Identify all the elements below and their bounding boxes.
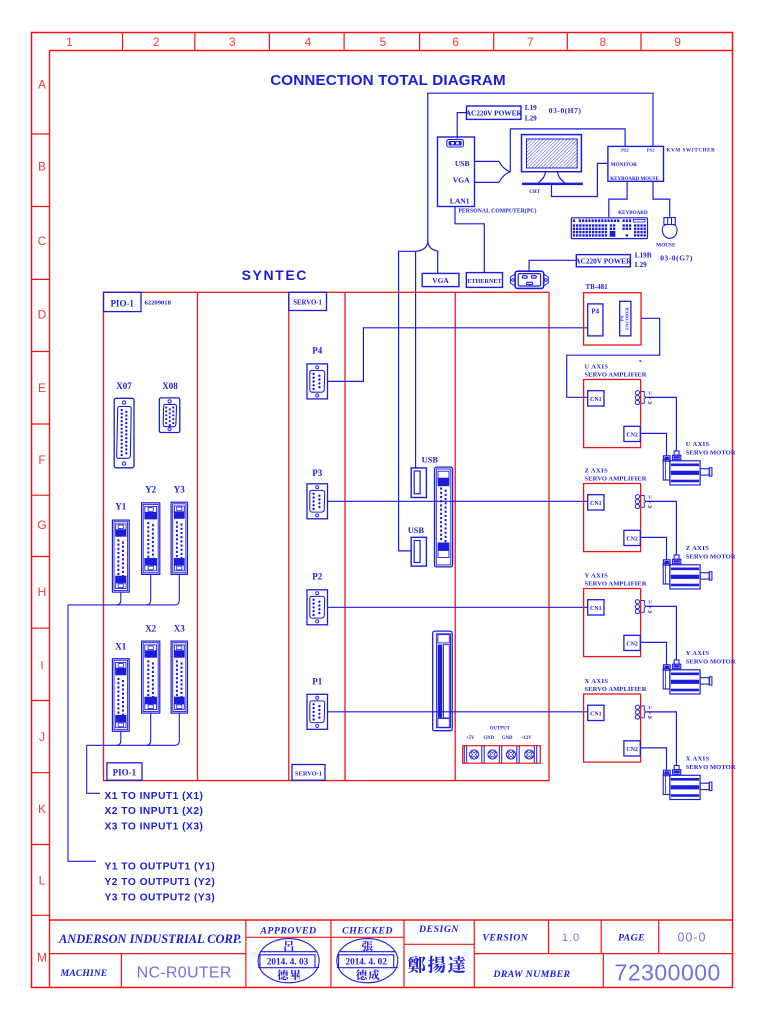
wire CN2 to Y motor: [640, 642, 666, 664]
svg-text:CN1: CN1: [590, 712, 602, 718]
svg-text:APPROVED: APPROVED: [259, 925, 316, 936]
keyboard drawing: [571, 218, 647, 239]
border frame inner lines: [50, 50, 733, 52]
svg-text:P1: P1: [312, 677, 322, 687]
svg-text:Z AXIS: Z AXIS: [585, 468, 609, 475]
svg-text:I: I: [40, 658, 43, 672]
svg-text:D: D: [38, 308, 47, 322]
svg-text:GND: GND: [502, 736, 513, 741]
UVW terminals U: [635, 391, 639, 395]
Y axis servo amplifier box: [584, 589, 641, 657]
svg-text:CN1: CN1: [590, 397, 602, 403]
svg-text:X2: X2: [145, 624, 156, 634]
svg-text:Y1 TO OUTPUT1 (Y1): Y1 TO OUTPUT1 (Y1): [105, 861, 216, 872]
svg-text:NC-R0UTER: NC-R0UTER: [137, 964, 232, 981]
svg-text:U AXIS: U AXIS: [686, 441, 710, 448]
svg-text:X3 TO INPUT1 (X3): X3 TO INPUT1 (X3): [105, 822, 204, 833]
wire VGA-box riser to KVM PS2 right: [428, 93, 653, 240]
wire Y bus to output labels: [68, 605, 96, 861]
wire CN2 to Z motor: [640, 537, 666, 559]
svg-text:PS2: PS2: [647, 148, 655, 153]
svg-text:72300000: 72300000: [615, 959, 721, 985]
svg-text:SERVO AMPLIFIER: SERVO AMPLIFIER: [585, 580, 647, 587]
X axis servo amplifier box: [584, 694, 641, 762]
svg-text:SERVO AMPLIFIER: SERVO AMPLIFIER: [585, 475, 647, 482]
UVW terminals Y: [635, 600, 639, 604]
svg-text:DRAW NUMBER: DRAW NUMBER: [492, 969, 570, 980]
svg-text:X3: X3: [174, 624, 185, 634]
wire Y-split to VGA and USB risers: [416, 240, 428, 251]
svg-text:CN2: CN2: [626, 747, 638, 753]
wire P4 to TB-481: [328, 328, 588, 382]
connector P2: [307, 590, 328, 625]
X axis servo motor: [663, 770, 670, 775]
wire P3 to Z axis CN1: [328, 500, 588, 502]
connector X3: [171, 641, 187, 713]
personal computer box: [438, 137, 475, 207]
SERVO-1 top label box: [289, 292, 327, 310]
wire X bus to input labels: [87, 745, 100, 793]
svg-text:CHECKED: CHECKED: [342, 925, 393, 936]
connector USB 1: [411, 468, 426, 498]
svg-text:W: W: [648, 504, 653, 509]
svg-text:7: 7: [527, 35, 534, 49]
svg-text:X1: X1: [115, 642, 126, 652]
svg-text:SERVO-1: SERVO-1: [293, 299, 322, 306]
wire UVW to Z motor: [646, 501, 676, 555]
U axis servo amplifier box: [584, 380, 641, 448]
wire riser to VGA box: [437, 251, 439, 273]
svg-text:USB: USB: [455, 159, 470, 168]
svg-text:KEYBOARD: KEYBOARD: [618, 210, 648, 216]
svg-text:SERVO-1: SERVO-1: [295, 770, 322, 777]
wire UVW to X motor: [646, 712, 676, 766]
connector CN2 Z: [624, 530, 640, 545]
svg-text:+5V: +5V: [466, 736, 475, 741]
svg-text:3: 3: [229, 35, 236, 49]
svg-text:Y AXIS: Y AXIS: [686, 650, 710, 657]
svg-text:2014. 4. 02: 2014. 4. 02: [346, 957, 388, 967]
svg-text:KEYBOARD MOUSE: KEYBOARD MOUSE: [610, 177, 659, 182]
designer name: [408, 956, 426, 973]
SERVO-1 bottom label box: [292, 765, 325, 781]
wire AC power 2 to socket: [529, 260, 576, 271]
wire Y-connectors bus: [68, 604, 175, 606]
svg-text:AC220V POWER: AC220V POWER: [575, 256, 632, 265]
svg-text:X07: X07: [116, 381, 132, 391]
wire KVM to keyboard: [609, 181, 627, 217]
svg-text:CRT: CRT: [529, 189, 540, 195]
AC220V POWER box 1: [467, 106, 522, 119]
connector CN1 Y: [588, 600, 604, 615]
wire P1 to X axis CN1: [328, 711, 588, 713]
svg-text:PIO-1: PIO-1: [110, 298, 134, 308]
connector CN2 X: [624, 741, 640, 756]
svg-text:P2: P2: [312, 572, 322, 582]
SYNTEC red dividers: [197, 292, 199, 780]
frame row dividers: [32, 133, 50, 135]
wire VGA from PC: [475, 181, 500, 183]
UVW terminals X: [635, 705, 639, 709]
svg-text:GND: GND: [483, 736, 494, 741]
svg-text:6: 6: [452, 35, 459, 49]
Y axis servo motor: [663, 665, 670, 670]
connector Y2: [142, 503, 160, 575]
svg-text:P3: P3: [312, 468, 322, 478]
svg-text:W: W: [648, 715, 653, 720]
svg-text:J: J: [39, 730, 45, 744]
svg-text:OUTPUT: OUTPUT: [490, 726, 511, 731]
power socket icon: [511, 274, 516, 286]
connector P1: [307, 694, 328, 729]
connector CN1 U: [588, 391, 604, 406]
svg-text:ETHERNET: ETHERNET: [467, 278, 502, 285]
svg-text:SERVO MOTOR: SERVO MOTOR: [686, 553, 736, 560]
wire TB-481 to U axis CN1: [567, 318, 660, 397]
connector X07: [114, 398, 134, 468]
svg-text:MACHINE: MACHINE: [60, 968, 108, 979]
svg-text:PS2: PS2: [621, 148, 629, 153]
svg-text:8: 8: [600, 35, 607, 49]
svg-text:L29: L29: [635, 261, 647, 269]
red dot mark: [639, 360, 641, 362]
approved stamp: [258, 939, 319, 983]
ETHERNET box: [466, 273, 502, 288]
svg-text:CN1: CN1: [590, 606, 602, 612]
svg-text:Y2 TO OUTPUT1 (Y2): Y2 TO OUTPUT1 (Y2): [105, 877, 216, 888]
frame column dividers: [122, 33, 124, 51]
svg-text:F: F: [38, 453, 45, 467]
svg-text:1: 1: [66, 35, 73, 49]
PC power inlet icon: [447, 140, 464, 148]
connector Y3: [171, 502, 187, 574]
U axis servo motor: [663, 456, 670, 461]
svg-text:G: G: [37, 518, 46, 532]
svg-text:9: 9: [674, 35, 681, 49]
svg-text:SERVO MOTOR: SERVO MOTOR: [686, 764, 736, 771]
svg-text:5: 5: [380, 35, 387, 49]
svg-text:K: K: [38, 802, 46, 816]
PIO-1 top label box: [104, 292, 142, 311]
PIO-1 bottom label box: [107, 763, 142, 780]
svg-text:MONITOR: MONITOR: [611, 162, 638, 168]
svg-text:Y3 TO OUTPUT2 (Y3): Y3 TO OUTPUT2 (Y3): [105, 892, 216, 903]
svg-text:B: B: [38, 159, 46, 173]
svg-text:LAN1: LAN1: [450, 196, 470, 205]
title block outline: [50, 919, 733, 921]
svg-text:00-0: 00-0: [677, 930, 706, 944]
svg-text:W: W: [648, 400, 653, 405]
svg-text:X2 TO INPUT1 (X2): X2 TO INPUT1 (X2): [105, 806, 204, 817]
svg-text:4: 4: [305, 35, 312, 49]
svg-text:C: C: [38, 234, 47, 248]
connector CN1 X: [588, 705, 604, 720]
svg-text:L19B: L19B: [635, 251, 652, 259]
wire bundle to KVM PS2 left: [510, 129, 625, 172]
svg-text:Z AXIS: Z AXIS: [686, 545, 710, 552]
svg-text:CN2: CN2: [626, 537, 638, 543]
svg-text:VERSION: VERSION: [482, 932, 528, 943]
svg-text:03-0(G7): 03-0(G7): [660, 253, 693, 262]
connector X08: [159, 398, 179, 433]
svg-text:AC220V POWER: AC220V POWER: [466, 108, 523, 117]
svg-text:SYNTEC: SYNTEC: [242, 267, 308, 283]
svg-text:CN2: CN2: [626, 433, 638, 439]
svg-text:X08: X08: [162, 381, 178, 391]
connector X2: [142, 641, 160, 713]
wire LAN1 to ETHERNET: [455, 207, 484, 273]
svg-text:VGA: VGA: [432, 276, 449, 285]
wire X-connectors bus: [87, 744, 175, 746]
svg-text:MOUSE: MOUSE: [656, 242, 676, 248]
svg-text:+12V: +12V: [521, 736, 533, 741]
svg-text:H: H: [38, 585, 47, 599]
svg-text:L29: L29: [525, 115, 537, 123]
svg-text:M: M: [37, 950, 47, 964]
svg-text:CN1: CN1: [590, 501, 602, 507]
svg-text:Y1: Y1: [115, 502, 126, 512]
svg-text:SERVO AMPLIFIER: SERVO AMPLIFIER: [585, 686, 647, 693]
svg-text:P4: P4: [591, 307, 599, 315]
svg-text:CONNECTION TOTAL DIAGRAM: CONNECTION TOTAL DIAGRAM: [270, 72, 506, 89]
connector CN2 U: [624, 426, 640, 441]
connector P3: [307, 484, 328, 519]
connector Y1: [112, 520, 129, 592]
wire CN2 to X motor: [640, 748, 666, 770]
wire AC power 1 to PC inlet: [457, 113, 466, 139]
Z axis servo amplifier box: [584, 484, 641, 552]
svg-text:USB: USB: [408, 526, 425, 535]
svg-text:X AXIS: X AXIS: [686, 755, 710, 762]
cable bundle arcs: [499, 161, 510, 171]
svg-text:USB: USB: [422, 456, 439, 465]
connector USB 2: [411, 537, 426, 566]
svg-text:W: W: [648, 609, 653, 614]
SYNTEC main red box: [104, 292, 550, 780]
svg-text:Y3: Y3: [174, 485, 185, 495]
svg-text:2014. 4. 03: 2014. 4. 03: [267, 957, 309, 967]
svg-text:03-0(H7): 03-0(H7): [549, 106, 582, 115]
svg-text:DESIGN: DESIGN: [418, 924, 459, 935]
wire monitor to KVM: [552, 163, 608, 196]
svg-text:PIO-1: PIO-1: [113, 767, 137, 777]
svg-text:L: L: [39, 874, 46, 888]
connector X1: [112, 659, 129, 732]
svg-text:X1 TO INPUT1 (X1): X1 TO INPUT1 (X1): [105, 791, 204, 802]
Z axis servo motor: [663, 560, 670, 565]
TB-481 P4 box: [588, 304, 603, 336]
TB-481 box: [584, 293, 641, 345]
connector IDC long 1: [435, 467, 453, 567]
svg-text:2: 2: [153, 35, 160, 49]
svg-text:Y AXIS: Y AXIS: [585, 573, 609, 580]
AC220V POWER box 2: [576, 255, 630, 267]
monitor stand: [539, 172, 546, 183]
wire P2 to Y axis CN1: [328, 606, 588, 608]
svg-text:62209018: 62209018: [145, 299, 172, 306]
connector CN2 Y: [624, 635, 640, 650]
svg-text:Y2: Y2: [145, 485, 156, 495]
svg-text:PAGE: PAGE: [618, 932, 645, 943]
svg-text:VGA: VGA: [453, 175, 470, 184]
svg-text:SERVO MOTOR: SERVO MOTOR: [686, 449, 736, 456]
svg-text:SERVO MOTOR: SERVO MOTOR: [686, 658, 736, 665]
mouse drawing: [664, 218, 675, 225]
wire riser to USB1: [415, 251, 417, 468]
connector CN1 Z: [588, 495, 604, 510]
TB-481 P4 ENCODER box: [620, 301, 631, 336]
svg-text:U AXIS: U AXIS: [585, 364, 609, 371]
wire KVM to mouse: [653, 181, 670, 216]
connector IDC long 2: [433, 631, 453, 731]
svg-text:1.0: 1.0: [562, 932, 580, 944]
svg-text:L19: L19: [525, 104, 537, 112]
wire UVW to Y motor: [646, 606, 676, 660]
svg-text:TB-481: TB-481: [586, 283, 609, 291]
checked stamp: [337, 939, 398, 983]
monitor CRT: [522, 135, 582, 172]
svg-text:SERVO AMPLIFIER: SERVO AMPLIFIER: [585, 371, 647, 378]
wire CN2 to U motor: [640, 433, 666, 455]
svg-text:E: E: [38, 381, 46, 395]
wire UVW to U motor: [646, 397, 676, 451]
svg-text:PERSONAL COMPUTER(PC): PERSONAL COMPUTER(PC): [458, 208, 536, 215]
svg-text:P4: P4: [312, 346, 322, 356]
svg-text:ANDERSON INDUSTRIAL CORP.: ANDERSON INDUSTRIAL CORP.: [58, 932, 242, 946]
terminal block OUTPUT: [463, 746, 541, 764]
svg-text:X AXIS: X AXIS: [585, 678, 609, 685]
svg-text:KVM SWITCHER: KVM SWITCHER: [667, 148, 716, 154]
KVM switcher box: [608, 146, 664, 181]
VGA box: [422, 273, 459, 286]
svg-text:ENCODER: ENCODER: [625, 307, 630, 330]
UVW terminals Z: [635, 495, 639, 499]
wire USB from PC: [475, 160, 500, 162]
connector P4: [307, 364, 328, 399]
svg-text:A: A: [38, 78, 46, 92]
svg-text:CN2: CN2: [626, 642, 638, 648]
